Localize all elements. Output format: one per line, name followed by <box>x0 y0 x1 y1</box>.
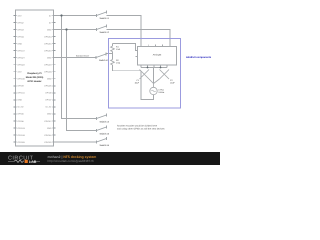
svg-text:GND: GND <box>47 113 52 116</box>
svg-text:GPIO12: GPIO12 <box>44 120 52 123</box>
svg-text:GND: GND <box>47 78 52 81</box>
svg-text:GPIO11: GPIO11 <box>18 92 26 95</box>
svg-text:GPIO5: GPIO5 <box>18 113 25 116</box>
svg-text:Another encoder would be divid: Another encoder would be divided here <box>117 125 158 128</box>
svg-text:and using other GPIOs as will: and using other GPIOs as will the next d… <box>117 128 165 131</box>
svg-text:Switch #2: Switch #2 <box>100 31 110 34</box>
svg-text:Model 3B (2015): Model 3B (2015) <box>26 76 44 79</box>
svg-text:3.3V: 3.3V <box>18 71 23 74</box>
svg-text:GPIO25: GPIO25 <box>44 85 52 88</box>
svg-text:GPIO4: GPIO4 <box>18 35 25 38</box>
svg-text:GND: GND <box>47 127 52 130</box>
svg-text:10uF: 10uF <box>170 82 175 85</box>
svg-text:Switch #3: Switch #3 <box>99 59 109 62</box>
svg-text:GPIO7: GPIO7 <box>45 99 52 102</box>
svg-text:GPIO16: GPIO16 <box>44 134 52 137</box>
svg-text:GPIO2: GPIO2 <box>18 21 25 24</box>
svg-text:LAB: LAB <box>29 160 37 164</box>
svg-text:GND: GND <box>18 42 23 45</box>
svg-text:10uF: 10uF <box>134 82 139 85</box>
svg-text:GPIO23: GPIO23 <box>44 64 52 67</box>
svg-text:GND: GND <box>18 99 23 102</box>
svg-text:9 MHz: 9 MHz <box>159 91 165 94</box>
svg-text:GPIO22: GPIO22 <box>18 64 26 67</box>
svg-text:Switch #4: Switch #4 <box>100 120 110 123</box>
svg-text:GPIO26: GPIO26 <box>18 141 26 144</box>
svg-text:ID_SD: ID_SD <box>18 106 24 109</box>
svg-text:GND: GND <box>47 28 52 31</box>
svg-text:GPIO18: GPIO18 <box>44 49 52 52</box>
svg-text:GPIO17: GPIO17 <box>18 49 26 52</box>
svg-text:GPIO15: GPIO15 <box>44 42 52 45</box>
svg-text:3.3V: 3.3V <box>18 14 23 17</box>
svg-text:Switch #1: Switch #1 <box>100 17 110 20</box>
svg-text:GPIO8: GPIO8 <box>45 92 52 95</box>
svg-text:Adafruit components: Adafruit components <box>186 56 212 59</box>
svg-text:http://circuitlab.com/c/jpasbf: http://circuitlab.com/c/jpasbfN6S76 <box>48 159 95 163</box>
svg-text:1 kΩ: 1 kΩ <box>116 48 121 51</box>
svg-text:GPIO9: GPIO9 <box>18 85 25 88</box>
svg-text:GPIO24: GPIO24 <box>44 71 52 74</box>
svg-text:GPIO27: GPIO27 <box>18 56 26 59</box>
svg-text:GPIO10: GPIO10 <box>18 78 26 81</box>
svg-text:GPIO19: GPIO19 <box>18 134 26 137</box>
svg-text:GPIO6: GPIO6 <box>18 120 25 123</box>
svg-text:GPIO3: GPIO3 <box>18 28 25 31</box>
svg-text:GPIO Header: GPIO Header <box>27 80 41 83</box>
svg-text:GPIO20: GPIO20 <box>44 141 52 144</box>
svg-text:ID_SC: ID_SC <box>46 106 52 109</box>
svg-text:GPIO13: GPIO13 <box>18 127 26 130</box>
svg-text:Switch #5: Switch #5 <box>100 132 110 135</box>
svg-text:ATtiny85: ATtiny85 <box>153 54 162 57</box>
svg-text:GPIO14: GPIO14 <box>44 35 52 38</box>
svg-text:GND: GND <box>47 56 52 59</box>
svg-text:Raspberry Pi: Raspberry Pi <box>27 72 42 75</box>
svg-text:CTN1: CTN1 <box>159 88 165 91</box>
svg-text:Standard Grove: Standard Grove <box>76 55 89 58</box>
svg-text:1 kΩ: 1 kΩ <box>116 62 121 65</box>
svg-text:Switch #6: Switch #6 <box>100 144 110 147</box>
